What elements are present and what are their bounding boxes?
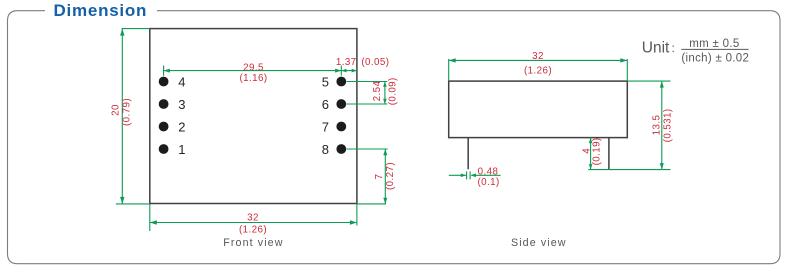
dimension 32 front arrows bbox=[150, 220, 357, 224]
svg-text:13.5: 13.5 bbox=[651, 115, 662, 136]
svg-text:6: 6 bbox=[322, 97, 329, 112]
svg-text:4: 4 bbox=[178, 74, 185, 89]
dimension 2.54 lines bbox=[347, 82, 388, 105]
svg-text:(1.26): (1.26) bbox=[239, 224, 267, 235]
dimension 0.48 arrows bbox=[461, 174, 476, 178]
svg-text:32: 32 bbox=[532, 51, 544, 62]
pin 1 bbox=[159, 144, 169, 154]
front view body bbox=[150, 29, 357, 204]
pin 5 bbox=[336, 77, 346, 87]
pin 3 bbox=[159, 99, 169, 109]
side view right pin bbox=[608, 138, 610, 170]
svg-text:1: 1 bbox=[178, 142, 185, 157]
svg-text:7: 7 bbox=[322, 119, 329, 134]
dimension 29.5/1.37 line bbox=[164, 66, 357, 76]
pin 6 bbox=[336, 99, 346, 109]
svg-text:29.5: 29.5 bbox=[243, 62, 264, 73]
svg-text:3: 3 bbox=[178, 97, 185, 112]
dimension 32 front lines bbox=[150, 204, 357, 231]
svg-text:32: 32 bbox=[247, 213, 259, 224]
svg-text:(0.79): (0.79) bbox=[121, 98, 132, 126]
dimension 0.48 lines bbox=[449, 171, 501, 179]
dimension 20 arrows bbox=[120, 29, 124, 204]
pin 4 bbox=[159, 77, 169, 87]
side view body bbox=[449, 81, 628, 138]
dimension 7 arrows bbox=[383, 149, 387, 204]
pin 7 bbox=[336, 122, 346, 132]
side view left pin bbox=[467, 138, 469, 170]
svg-text:Side view: Side view bbox=[511, 237, 567, 249]
dimension 32 side lines bbox=[449, 59, 628, 81]
svg-text:5: 5 bbox=[322, 74, 329, 89]
svg-text:Dimension: Dimension bbox=[54, 1, 148, 20]
pin 2 bbox=[159, 122, 169, 132]
svg-text:mm ± 0.5: mm ± 0.5 bbox=[689, 38, 739, 50]
svg-text:(0.05): (0.05) bbox=[361, 57, 389, 68]
dimension 29.5 arrows bbox=[164, 69, 357, 73]
dimension 2.54 arrows bbox=[383, 82, 387, 105]
svg-text:1.37: 1.37 bbox=[336, 57, 357, 68]
svg-text:0.48: 0.48 bbox=[478, 166, 499, 177]
svg-text:(1.16): (1.16) bbox=[240, 73, 268, 84]
svg-text:(0.531): (0.531) bbox=[663, 108, 674, 142]
svg-text:8: 8 bbox=[322, 142, 329, 157]
dimension 13.5 arrows bbox=[660, 81, 664, 170]
svg-text:2.54: 2.54 bbox=[372, 81, 383, 102]
dimension 7 lines bbox=[347, 149, 388, 204]
dimension 32 side arrows bbox=[449, 58, 628, 62]
svg-text:(0.09): (0.09) bbox=[388, 77, 399, 105]
svg-text:20: 20 bbox=[110, 104, 121, 116]
svg-text:Unit: Unit bbox=[642, 39, 670, 56]
svg-text:(0.1): (0.1) bbox=[478, 177, 500, 188]
dimension 20 lines bbox=[116, 29, 150, 204]
dimension 13.5 lines bbox=[588, 81, 670, 170]
svg-text:Front view: Front view bbox=[223, 237, 283, 249]
svg-text:(1.26): (1.26) bbox=[524, 65, 552, 76]
dimension 4 arrows bbox=[589, 138, 593, 170]
unit fraction line bbox=[681, 48, 748, 50]
pin 8 bbox=[336, 144, 346, 154]
svg-text:(inch) ± 0.02: (inch) ± 0.02 bbox=[681, 53, 749, 65]
svg-text:2: 2 bbox=[178, 119, 185, 134]
svg-text:7: 7 bbox=[374, 174, 385, 180]
svg-text::: : bbox=[672, 41, 675, 55]
svg-text:(0.19): (0.19) bbox=[592, 137, 603, 165]
svg-text:(0.27): (0.27) bbox=[385, 162, 396, 190]
dimension 4 lines bbox=[590, 138, 592, 170]
